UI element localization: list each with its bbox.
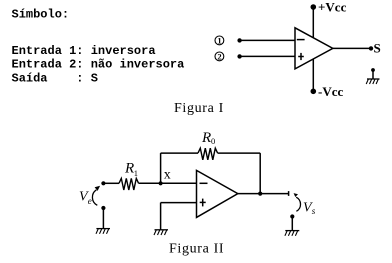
- svg-text:R: R: [201, 130, 211, 146]
- svg-text:S: S: [374, 40, 381, 55]
- svg-text:x: x: [164, 168, 171, 183]
- svg-text:-Vcc: -Vcc: [318, 84, 343, 99]
- svg-text:+Vcc: +Vcc: [318, 0, 347, 14]
- svg-text:Figura II: Figura II: [169, 241, 224, 256]
- svg-text:0: 0: [211, 136, 215, 146]
- svg-text:R: R: [124, 160, 134, 176]
- svg-text:e: e: [88, 196, 92, 206]
- svg-text:s: s: [312, 206, 316, 216]
- svg-text:Saída : S: Saída : S: [12, 72, 98, 86]
- svg-text:2: 2: [217, 51, 221, 61]
- svg-text:1: 1: [134, 168, 138, 178]
- svg-text:1: 1: [217, 35, 221, 45]
- svg-text:Entrada 1: inversora: Entrada 1: inversora: [12, 44, 156, 58]
- svg-text:Entrada 2: não inversora: Entrada 2: não inversora: [12, 58, 185, 72]
- svg-text:Figura I: Figura I: [174, 101, 224, 116]
- svg-text:Símbolo:: Símbolo:: [12, 7, 70, 21]
